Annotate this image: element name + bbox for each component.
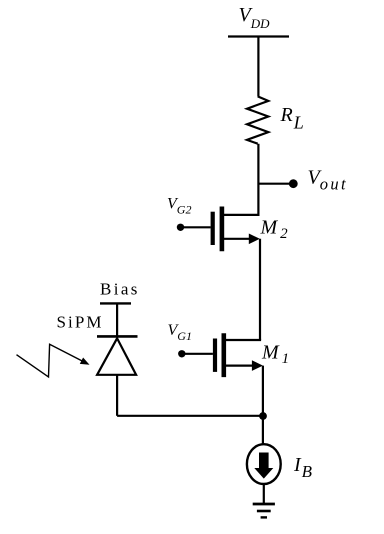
wire VDD to resistor — [257, 37, 259, 97]
wire SiPM anode down — [116, 375, 118, 416]
label IB — [293, 454, 313, 481]
node VG2 terminal dot — [177, 224, 184, 231]
label M2 — [260, 217, 289, 243]
wire SiPM to junction — [117, 415, 263, 417]
label Vout — [308, 167, 349, 194]
node Vout terminal dot — [289, 179, 298, 188]
junction node dot — [259, 412, 267, 420]
diode SiPM cathode bar — [97, 335, 138, 338]
label Bias — [100, 280, 140, 299]
svg-text:Bias: Bias — [100, 280, 140, 299]
wire M2 source to M1 drain — [259, 239, 261, 340]
label VG2 — [167, 196, 191, 217]
wire M1 source to current source — [262, 366, 264, 444]
svg-text:SiPM: SiPM — [57, 313, 104, 332]
label SiPM — [57, 313, 104, 332]
transistor M1 — [183, 333, 263, 377]
wire current source to ground — [263, 485, 265, 503]
resistor RL — [247, 96, 268, 143]
supply VDD terminal bar — [228, 35, 289, 37]
supply Bias terminal bar — [100, 302, 131, 304]
label VG1 — [168, 322, 192, 343]
wire resistor to M2 drain — [257, 144, 259, 216]
current source IB — [247, 444, 281, 484]
photon arrow — [17, 344, 90, 377]
wire Bias to SiPM cathode — [116, 303, 118, 336]
label RL — [280, 104, 304, 133]
diode SiPM triangle — [97, 338, 136, 375]
ground — [253, 504, 275, 517]
node VG1 terminal dot — [178, 350, 185, 357]
label M1 — [261, 342, 289, 368]
wire Vout stub — [258, 183, 291, 185]
transistor M2 — [182, 207, 260, 252]
label VDD — [239, 4, 271, 31]
